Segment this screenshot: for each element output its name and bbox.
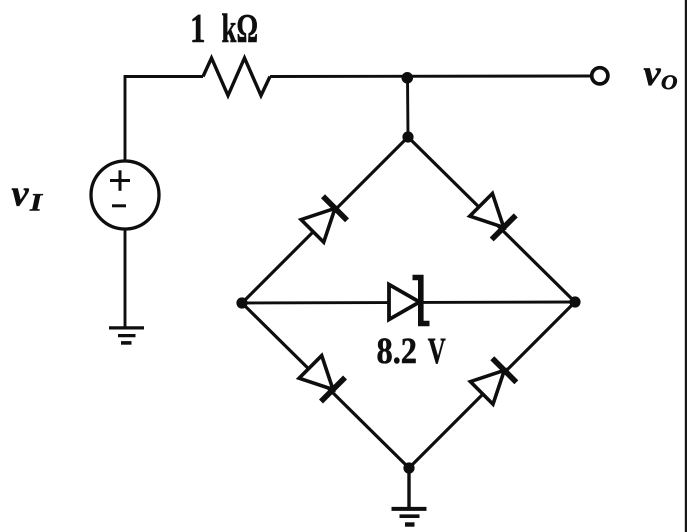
diode D4 (bridge bottom-right, points to right node) bbox=[470, 358, 517, 405]
ground (below bridge) bbox=[392, 509, 427, 525]
svg-text:1: 1 bbox=[190, 5, 206, 51]
diode D3 (bridge bottom-left, points to bottom node) bbox=[298, 355, 345, 402]
node: bridge left vertex bbox=[236, 297, 247, 308]
diode D2 (bridge top-right, points to right node) bbox=[469, 193, 516, 240]
node: bridge bottom vertex bbox=[403, 462, 414, 473]
wire: resistor to output terminal bbox=[270, 75, 592, 78]
diode D1 (bridge top-left, points to top node) bbox=[300, 196, 347, 243]
wire: bridge edge bottom-right bbox=[409, 302, 575, 468]
label: vI input node bbox=[12, 173, 44, 216]
page edge line (scan artifact) bbox=[685, 0, 687, 532]
svg-text:8.2: 8.2 bbox=[377, 331, 418, 372]
node: junction on top wire bbox=[402, 72, 414, 84]
label: vO output node bbox=[644, 53, 678, 94]
ground (below source) bbox=[109, 328, 144, 343]
node: bridge right vertex bbox=[569, 296, 580, 307]
svg-text:I: I bbox=[29, 189, 44, 216]
svg-text:v: v bbox=[644, 53, 662, 93]
wire: bridge edge top-left bbox=[242, 137, 408, 303]
terminal: output port circle bbox=[592, 68, 608, 84]
wire: top-left corner to resistor bbox=[125, 77, 203, 162]
zener diode 8.2 V (in bridge middle) bbox=[389, 278, 430, 324]
svg-text:v: v bbox=[12, 173, 30, 214]
wire: source bottom to ground bbox=[124, 229, 127, 327]
voltage source vI bbox=[91, 161, 159, 229]
svg-text:kΩ: kΩ bbox=[222, 5, 259, 51]
wire: bridge middle horizontal bbox=[242, 302, 575, 303]
wire: bridge edge top-right bbox=[408, 137, 575, 302]
node: bridge top vertex bbox=[402, 131, 413, 142]
svg-text:V: V bbox=[428, 331, 446, 372]
wire: bridge bottom to ground bbox=[407, 468, 410, 509]
wire: junction down to bridge top bbox=[406, 77, 409, 138]
svg-text:O: O bbox=[661, 72, 678, 94]
resistor 1 kOhm (zigzag) bbox=[203, 58, 270, 96]
wire: bridge edge bottom-left bbox=[242, 303, 409, 468]
